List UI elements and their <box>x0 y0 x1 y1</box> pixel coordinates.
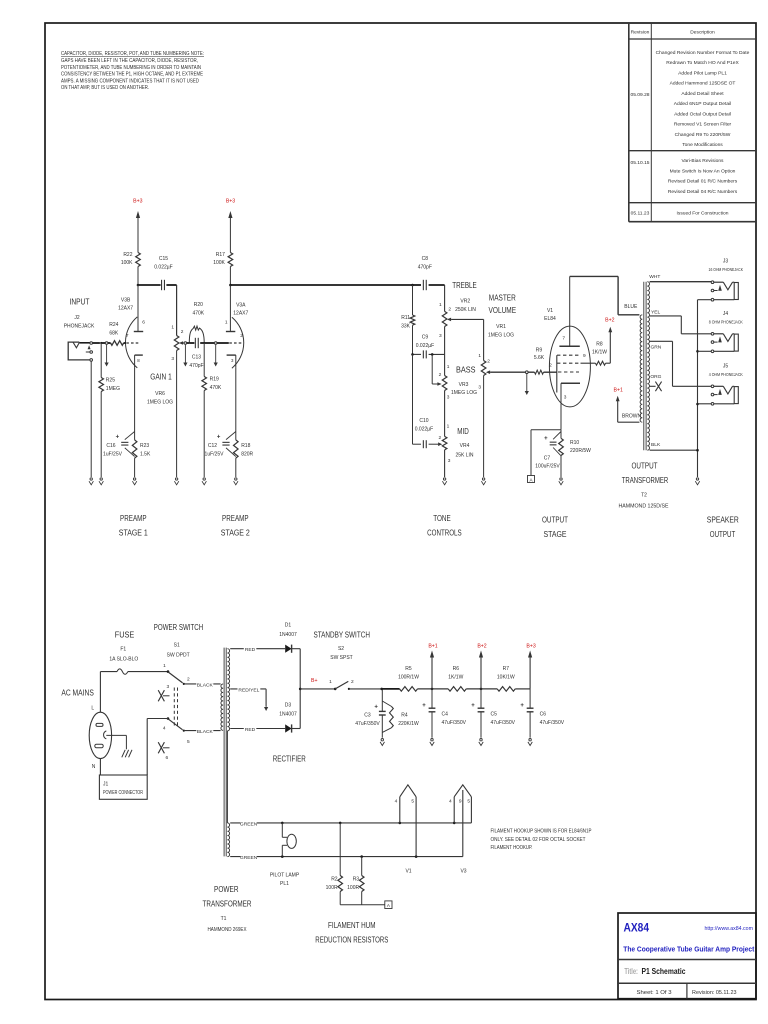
svg-text:TONE: TONE <box>433 514 451 523</box>
svg-text:FILAMENT HOOKUP SHOWN IS FOR E: FILAMENT HOOKUP SHOWN IS FOR EL84/6N1P <box>491 829 593 835</box>
svg-text:ON THAT AMP, BUT IS USED ON AN: ON THAT AMP, BUT IS USED ON ANOTHER. <box>61 85 149 91</box>
svg-text:3: 3 <box>564 395 567 401</box>
svg-text:1MEG LOG: 1MEG LOG <box>488 332 514 338</box>
svg-text:C12: C12 <box>208 443 217 449</box>
svg-text:HAMMOND 125D/SE: HAMMOND 125D/SE <box>619 503 670 509</box>
svg-text:Redrawn To Match HO And P1eX: Redrawn To Match HO And P1eX <box>666 60 739 66</box>
svg-text:OUTPUT: OUTPUT <box>710 530 736 539</box>
svg-text:Added Hammond 125DSE OT: Added Hammond 125DSE OT <box>670 81 736 87</box>
svg-text:POTENTIOMETER, AND TUBE NUMBER: POTENTIOMETER, AND TUBE NUMBERING IN ORD… <box>61 65 201 71</box>
svg-text:9: 9 <box>583 353 586 359</box>
svg-text:CAPACITOR, DIODE, RESISTOR, PO: CAPACITOR, DIODE, RESISTOR, POT, AND TUB… <box>61 51 204 57</box>
svg-text:STANDBY SWITCH: STANDBY SWITCH <box>313 630 370 639</box>
svg-text:Description: Description <box>690 30 715 36</box>
svg-text:Issued For Construction: Issued For Construction <box>677 211 729 217</box>
svg-text:R5: R5 <box>405 666 412 672</box>
svg-text:47uF/350V: 47uF/350V <box>491 720 516 726</box>
svg-text:7: 7 <box>562 336 565 342</box>
svg-text:4: 4 <box>163 726 166 732</box>
svg-text:TRANSFORMER: TRANSFORMER <box>203 899 252 908</box>
svg-text:Added Detail Sheet: Added Detail Sheet <box>681 91 724 97</box>
svg-text:VOLUME: VOLUME <box>489 306 517 315</box>
svg-text:220R/5W: 220R/5W <box>570 448 591 454</box>
svg-text:C4: C4 <box>442 712 449 718</box>
svg-text:68K: 68K <box>109 330 119 336</box>
svg-text:+: + <box>471 703 475 709</box>
svg-text:J2: J2 <box>74 315 80 321</box>
svg-text:5.6K: 5.6K <box>534 355 545 361</box>
svg-text:TREBLE: TREBLE <box>452 281 477 290</box>
svg-text:CONSISTENCY BETWEEN THE P1, HI: CONSISTENCY BETWEEN THE P1, HIGH OCTANE,… <box>61 72 203 78</box>
svg-text:0.022µF: 0.022µF <box>416 343 434 349</box>
svg-text:3: 3 <box>167 684 170 690</box>
svg-text:BLK: BLK <box>651 442 661 448</box>
svg-text:VR1: VR1 <box>496 324 506 330</box>
svg-text:3: 3 <box>439 333 442 339</box>
svg-text:Revision: 05.11.23: Revision: 05.11.23 <box>692 990 737 996</box>
svg-text:C16: C16 <box>106 443 115 449</box>
svg-text:S2: S2 <box>338 646 344 652</box>
svg-text:4: 4 <box>449 799 452 805</box>
svg-text:1: 1 <box>163 663 166 669</box>
svg-text:1A SLO-BLO: 1A SLO-BLO <box>109 656 138 662</box>
svg-text:GREEN: GREEN <box>240 821 258 827</box>
svg-text:REDUCTION RESISTORS: REDUCTION RESISTORS <box>315 936 388 945</box>
svg-text:C15: C15 <box>159 256 168 262</box>
svg-text:OUTPUT: OUTPUT <box>632 462 658 471</box>
svg-text:B+1: B+1 <box>428 643 437 649</box>
svg-text:R8: R8 <box>596 342 603 348</box>
svg-text:PREAMP: PREAMP <box>120 514 147 523</box>
svg-text:C9: C9 <box>422 335 429 341</box>
svg-text:R4: R4 <box>401 713 408 719</box>
svg-text:T1: T1 <box>221 916 227 922</box>
svg-text:BLACK: BLACK <box>197 729 214 735</box>
svg-text:Revision: Revision <box>631 30 650 36</box>
svg-text:The Cooperative Tube Guitar Am: The Cooperative Tube Guitar Amp Project <box>623 945 754 954</box>
svg-text:B+: B+ <box>311 678 318 684</box>
svg-text:POWER SWITCH: POWER SWITCH <box>154 623 204 632</box>
svg-text:Added 6N1P Output Detail: Added 6N1P Output Detail <box>674 101 732 107</box>
svg-text:R9: R9 <box>536 348 543 354</box>
svg-text:SW DPDT: SW DPDT <box>167 652 190 658</box>
svg-text:VR4: VR4 <box>460 443 470 449</box>
svg-text:F1: F1 <box>120 646 126 652</box>
svg-text:0.022µF: 0.022µF <box>415 426 433 432</box>
svg-text:R24: R24 <box>109 322 118 328</box>
svg-text:RED: RED <box>245 727 256 733</box>
svg-text:100R: 100R <box>347 885 359 891</box>
svg-text:1MEG LOG: 1MEG LOG <box>451 390 477 396</box>
svg-text:+: + <box>544 436 548 442</box>
svg-text:C3: C3 <box>364 713 371 719</box>
svg-text:MID: MID <box>457 427 469 436</box>
svg-text:6: 6 <box>166 755 169 761</box>
svg-text:OUTPUT: OUTPUT <box>542 516 568 525</box>
svg-text:POWER: POWER <box>214 885 239 894</box>
svg-text:+: + <box>116 435 120 441</box>
svg-text:J4: J4 <box>723 311 729 317</box>
svg-text:HAMMOND 269EX: HAMMOND 269EX <box>208 927 248 933</box>
svg-text:BROWN: BROWN <box>622 414 642 420</box>
svg-text:3: 3 <box>448 458 451 464</box>
svg-text:100R: 100R <box>326 885 338 891</box>
svg-text:Mute Switch Is Now An Option: Mute Switch Is Now An Option <box>670 168 736 174</box>
svg-text:C7: C7 <box>544 456 551 462</box>
svg-text:10K/1W: 10K/1W <box>497 674 515 680</box>
svg-text:R3: R3 <box>353 877 360 883</box>
svg-text:P1 Schematic: P1 Schematic <box>642 967 687 976</box>
svg-text:R10: R10 <box>570 440 579 446</box>
svg-text:V1: V1 <box>405 868 411 874</box>
svg-text:RED: RED <box>245 647 256 653</box>
svg-text:+: + <box>520 703 524 709</box>
svg-text:PL1: PL1 <box>280 881 289 887</box>
svg-text:5: 5 <box>467 799 470 805</box>
svg-text:1.5K: 1.5K <box>140 451 151 457</box>
svg-text:47uF/350V: 47uF/350V <box>355 721 380 727</box>
svg-text:FILAMENT HOOKUP.: FILAMENT HOOKUP. <box>491 845 533 851</box>
svg-text:12AX7: 12AX7 <box>233 311 248 317</box>
svg-text:1: 1 <box>329 679 332 685</box>
svg-text:33K: 33K <box>401 323 411 329</box>
svg-text:R22: R22 <box>123 252 132 258</box>
svg-text:1: 1 <box>171 325 174 331</box>
svg-text:V3A: V3A <box>236 303 246 309</box>
svg-text:2: 2 <box>448 307 451 313</box>
svg-text:BLUE: BLUE <box>624 304 638 310</box>
svg-text:AX84: AX84 <box>624 921 650 935</box>
svg-text:+: + <box>374 705 378 711</box>
svg-text:6: 6 <box>142 320 145 326</box>
svg-text:SPEAKER: SPEAKER <box>707 516 739 525</box>
svg-text:3: 3 <box>478 385 481 391</box>
svg-text:+: + <box>217 435 221 441</box>
svg-text:STAGE 1: STAGE 1 <box>119 529 148 538</box>
svg-text:2: 2 <box>487 359 490 365</box>
svg-text:5: 5 <box>187 739 190 745</box>
svg-text:Sheet: 1 Of 3: Sheet: 1 Of 3 <box>637 990 672 996</box>
svg-text:YEL: YEL <box>651 309 661 315</box>
svg-text:470pF: 470pF <box>189 363 203 369</box>
svg-text:R17: R17 <box>216 252 225 258</box>
svg-text:C13: C13 <box>192 355 201 361</box>
svg-text:47uF/350V: 47uF/350V <box>442 720 467 726</box>
svg-text:Added Pilot Lamp PL1: Added Pilot Lamp PL1 <box>678 70 727 76</box>
svg-text:05.11.23: 05.11.23 <box>631 211 650 217</box>
svg-text:1N4007: 1N4007 <box>279 711 297 717</box>
svg-text:1N4007: 1N4007 <box>279 632 297 638</box>
svg-text:1MEG LOG: 1MEG LOG <box>147 399 173 405</box>
svg-text:470pF: 470pF <box>418 264 432 270</box>
svg-text:12AX7: 12AX7 <box>118 306 133 312</box>
svg-text:GRN: GRN <box>650 344 661 350</box>
svg-text:STAGE 2: STAGE 2 <box>221 529 250 538</box>
svg-text:AMPS. A MISSING COMPONENT IND: AMPS. A MISSING COMPONENT INDICATES THAT… <box>61 78 199 84</box>
svg-text:AC MAINS: AC MAINS <box>61 688 94 697</box>
svg-text:WHT: WHT <box>649 274 660 280</box>
svg-text:D3: D3 <box>285 703 292 709</box>
svg-text:1: 1 <box>439 302 442 308</box>
svg-text:BLACK: BLACK <box>197 682 214 688</box>
svg-text:TRANSFORMER: TRANSFORMER <box>622 476 669 485</box>
svg-text:Changed Revision Number Format: Changed Revision Number Format To Date <box>656 50 750 56</box>
svg-text:3: 3 <box>447 395 450 401</box>
svg-text:MASTER: MASTER <box>489 294 516 303</box>
svg-text:B+3: B+3 <box>133 199 142 205</box>
svg-text:R23: R23 <box>140 443 149 449</box>
svg-text:R7: R7 <box>503 666 510 672</box>
svg-text:GAPS HAVE BEEN LEFT IN THE CAP: GAPS HAVE BEEN LEFT IN THE CAPACITOR, DI… <box>61 58 198 64</box>
svg-text:Vari-Bias Revisions: Vari-Bias Revisions <box>681 158 724 164</box>
svg-text:1: 1 <box>478 353 481 359</box>
svg-text:05.10.15: 05.10.15 <box>630 160 649 166</box>
svg-text:J1: J1 <box>103 782 109 788</box>
svg-text:100K: 100K <box>121 260 133 266</box>
svg-text:J5: J5 <box>723 364 729 370</box>
svg-text:470K: 470K <box>210 385 222 391</box>
svg-text:100uF/25V: 100uF/25V <box>535 463 560 469</box>
svg-text:R19: R19 <box>210 377 219 383</box>
svg-text:Revised Detail 01 R/C Numbers: Revised Detail 01 R/C Numbers <box>668 179 738 185</box>
svg-text:250K LIN: 250K LIN <box>455 307 476 313</box>
svg-text:B+3: B+3 <box>526 643 535 649</box>
svg-text:1: 1 <box>225 320 228 326</box>
svg-text:0.022µF: 0.022µF <box>154 264 172 270</box>
svg-text:J3: J3 <box>723 259 729 265</box>
svg-text:B+2: B+2 <box>605 318 614 324</box>
svg-text:1: 1 <box>447 364 450 370</box>
svg-text:VR3: VR3 <box>459 382 469 388</box>
svg-text:2: 2 <box>187 677 190 683</box>
svg-text:Title:: Title: <box>624 967 638 976</box>
svg-text:CONTROLS: CONTROLS <box>427 529 462 538</box>
svg-text:PILOT LAMP: PILOT LAMP <box>270 873 300 879</box>
svg-text:Revised Detail 04 R/C Numbers: Revised Detail 04 R/C Numbers <box>668 189 738 195</box>
svg-text:Added Octal Output Detail: Added Octal Output Detail <box>674 111 731 117</box>
svg-text:1uF/25V: 1uF/25V <box>205 451 225 457</box>
svg-text:R18: R18 <box>241 443 250 449</box>
svg-text:T2: T2 <box>641 493 647 499</box>
svg-text:3: 3 <box>171 356 174 362</box>
svg-text:L: L <box>91 706 94 712</box>
svg-text:R6: R6 <box>453 666 460 672</box>
svg-text:05.09.28: 05.09.28 <box>630 92 649 98</box>
svg-text:7: 7 <box>126 333 129 339</box>
svg-text:INPUT: INPUT <box>70 298 90 307</box>
svg-text:C5: C5 <box>491 712 498 718</box>
svg-text:C8: C8 <box>422 256 429 262</box>
svg-text:2: 2 <box>439 372 442 378</box>
svg-text:25K LIN: 25K LIN <box>455 452 473 458</box>
svg-text:4: 4 <box>395 799 398 805</box>
svg-text:EL84: EL84 <box>544 316 556 322</box>
svg-text:B+2: B+2 <box>477 643 486 649</box>
svg-text:R25: R25 <box>106 378 115 384</box>
svg-text:Changed R9 To 220R/5W: Changed R9 To 220R/5W <box>675 132 731 138</box>
svg-text:B+3: B+3 <box>226 199 235 205</box>
svg-text:R2: R2 <box>331 877 338 883</box>
svg-text:PHONEJACK: PHONEJACK <box>64 323 95 329</box>
svg-text:Tone Modifications: Tone Modifications <box>682 142 723 148</box>
svg-text:N: N <box>92 764 96 770</box>
svg-text:470K: 470K <box>192 310 204 316</box>
svg-text:1: 1 <box>447 424 450 430</box>
svg-text:R11: R11 <box>401 315 410 321</box>
svg-text:100R/1W: 100R/1W <box>398 674 419 680</box>
svg-text:POWER CONNECTOR: POWER CONNECTOR <box>103 790 143 796</box>
svg-text:GREEN: GREEN <box>240 855 258 861</box>
svg-text:VR6: VR6 <box>155 391 165 397</box>
svg-text:2: 2 <box>240 333 243 339</box>
svg-text:FUSE: FUSE <box>115 630 135 639</box>
svg-text:1MEG: 1MEG <box>106 386 120 392</box>
svg-text:16 OHM PHONEJACK: 16 OHM PHONEJACK <box>709 267 744 273</box>
svg-text:GAIN 1: GAIN 1 <box>150 373 172 382</box>
svg-text:4 OHM PHONEJACK: 4 OHM PHONEJACK <box>709 372 744 378</box>
svg-text:R20: R20 <box>194 302 203 308</box>
svg-text:STAGE: STAGE <box>544 530 567 539</box>
svg-text:VR2: VR2 <box>460 299 470 305</box>
svg-text:220K/1W: 220K/1W <box>398 721 419 727</box>
svg-text:2: 2 <box>181 329 184 335</box>
svg-text:1K/1W: 1K/1W <box>448 674 463 680</box>
svg-text:D1: D1 <box>285 623 292 629</box>
svg-text:RECTIFIER: RECTIFIER <box>273 754 306 763</box>
svg-text:8 OHM PHONEJACK: 8 OHM PHONEJACK <box>709 319 744 325</box>
svg-text:V3: V3 <box>460 868 466 874</box>
svg-text:1uF/25V: 1uF/25V <box>103 451 123 457</box>
svg-text:820R: 820R <box>241 451 253 457</box>
svg-text:SW SPST: SW SPST <box>330 655 353 661</box>
svg-text:5: 5 <box>411 799 414 805</box>
svg-text:BASS: BASS <box>456 366 476 375</box>
svg-text:+: + <box>422 703 426 709</box>
svg-text:Removed V1 Screen Filter: Removed V1 Screen Filter <box>674 122 732 128</box>
svg-text:100K: 100K <box>213 260 225 266</box>
svg-text:S1: S1 <box>174 642 180 648</box>
svg-text:1K/1W: 1K/1W <box>592 349 607 355</box>
svg-text:9: 9 <box>459 799 462 805</box>
svg-text:RED/YEL: RED/YEL <box>238 687 259 693</box>
svg-text:FILAMENT HUM: FILAMENT HUM <box>328 921 376 930</box>
svg-text:C10: C10 <box>419 418 428 424</box>
svg-text:47uF/350V: 47uF/350V <box>540 720 565 726</box>
svg-text:ONLY. SEE DETAIL 02 FOR OCTAL: ONLY. SEE DETAIL 02 FOR OCTAL SOCKET <box>491 837 586 843</box>
svg-text:PREAMP: PREAMP <box>222 514 249 523</box>
svg-text:2: 2 <box>351 679 354 685</box>
svg-text:http://www.ax84.com: http://www.ax84.com <box>705 926 754 932</box>
svg-text:V1: V1 <box>547 308 553 314</box>
svg-text:ORG: ORG <box>650 374 661 380</box>
svg-text:2: 2 <box>439 435 442 441</box>
svg-text:2: 2 <box>549 363 552 369</box>
svg-text:C6: C6 <box>540 712 547 718</box>
svg-text:B+1: B+1 <box>614 388 623 394</box>
svg-text:V3B: V3B <box>121 298 131 304</box>
